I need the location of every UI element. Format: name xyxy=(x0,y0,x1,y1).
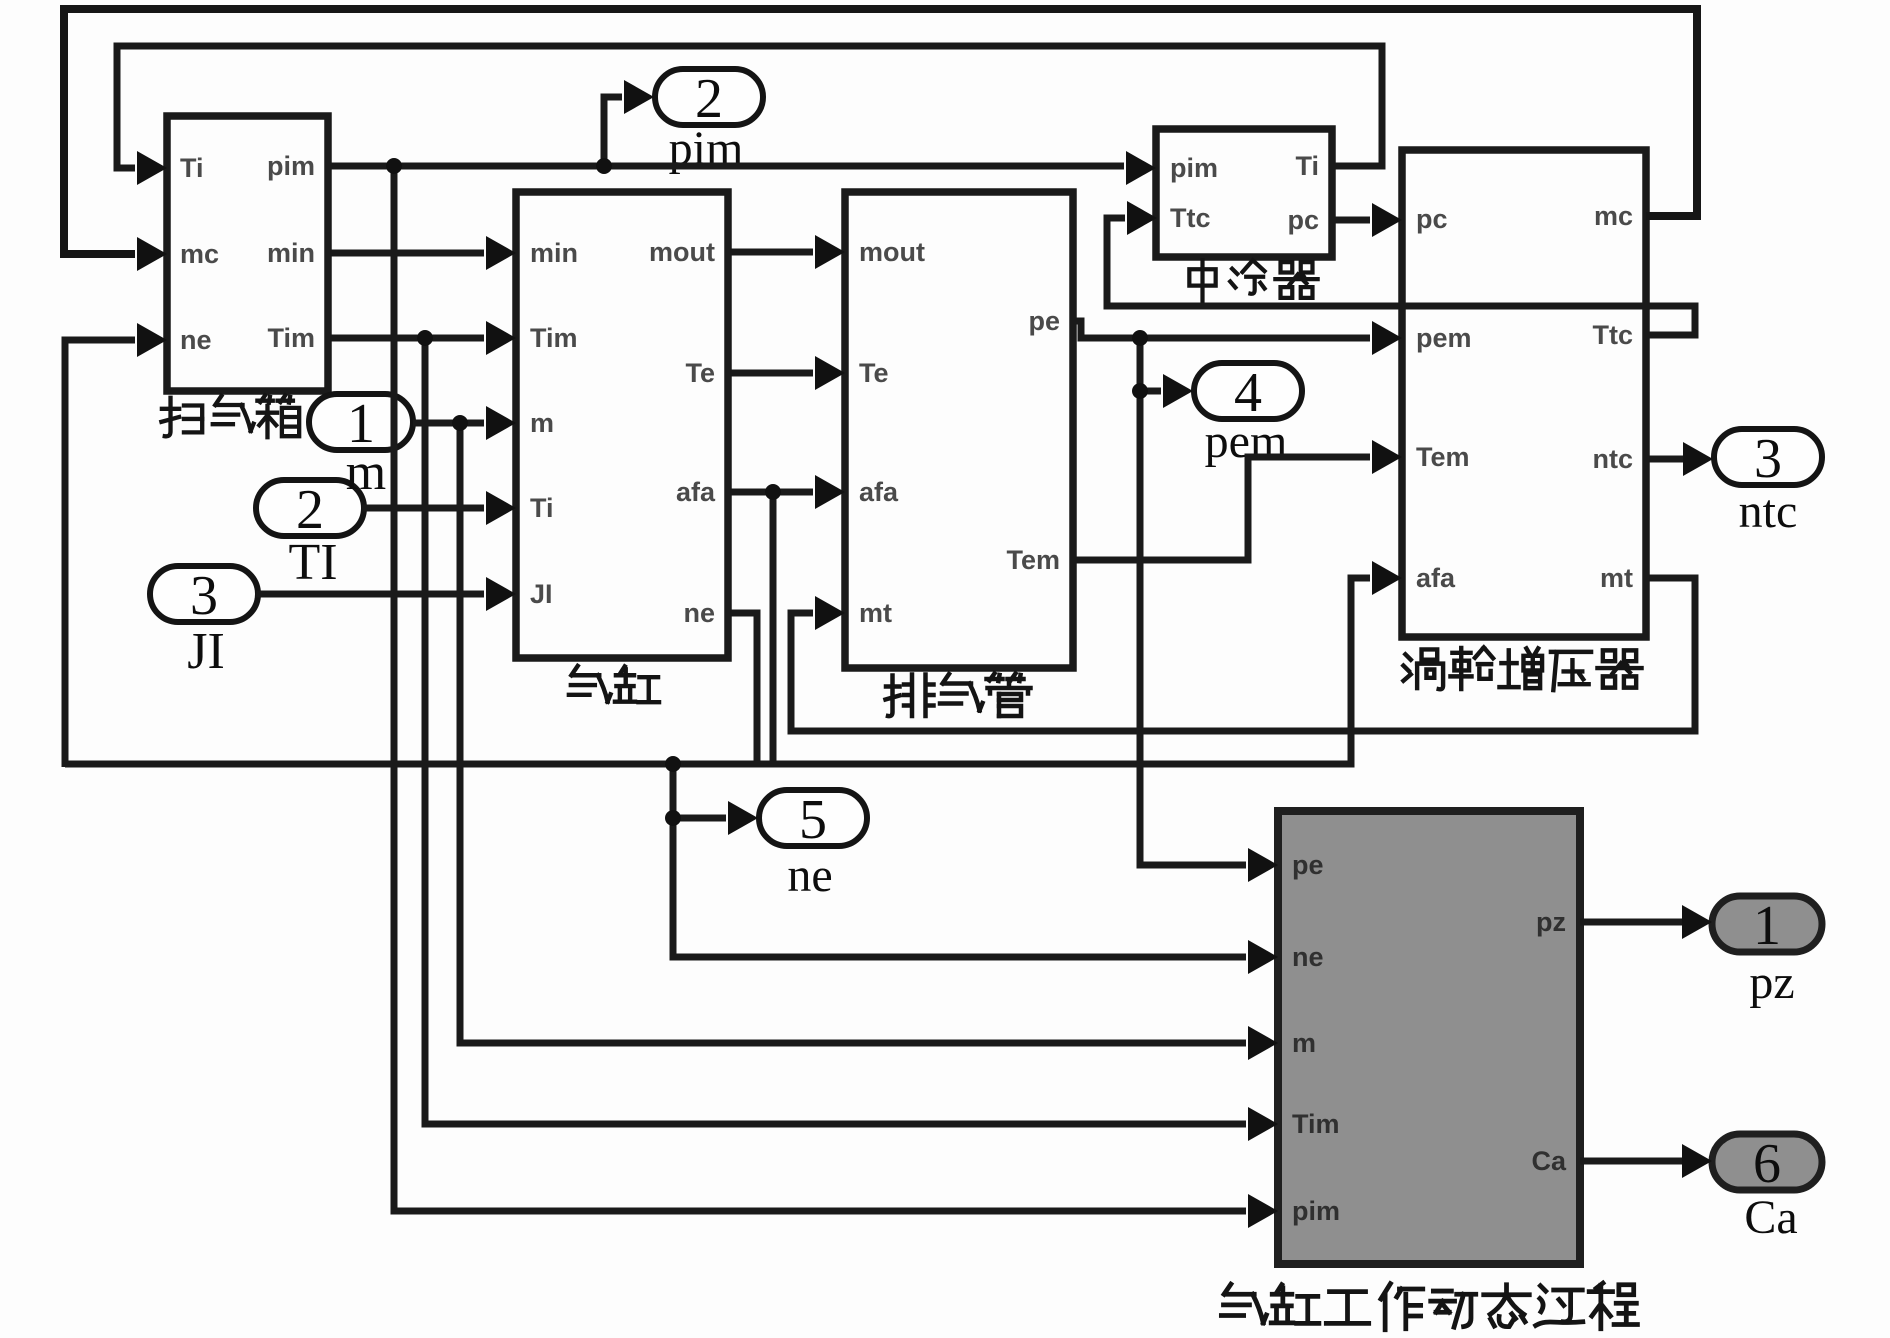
junction pim branch down xyxy=(386,158,402,174)
svg-text:3: 3 xyxy=(190,565,218,627)
svg-text:Ti: Ti xyxy=(1295,151,1319,181)
label 排气管 xyxy=(886,674,1031,717)
arrow into 涡轮增压器 pc xyxy=(1372,203,1402,237)
arrow into 涡轮增压器 afa xyxy=(1372,561,1402,595)
svg-text:pim: pim xyxy=(1170,153,1218,183)
svg-text:ntc: ntc xyxy=(1739,485,1798,538)
svg-text:m: m xyxy=(346,444,386,501)
svg-text:Ca: Ca xyxy=(1531,1146,1566,1176)
label 中冷器 xyxy=(1189,260,1317,301)
svg-text:afa: afa xyxy=(1416,563,1456,593)
output port oval 2 pim xyxy=(655,69,763,125)
port labels 扫气箱 xyxy=(180,151,315,355)
output port oval 5 ne xyxy=(759,790,867,846)
svg-text:min: min xyxy=(530,238,578,268)
arrow into 气缸 m xyxy=(486,406,516,440)
label 扫气箱 xyxy=(161,395,299,437)
svg-text:ntc: ntc xyxy=(1593,444,1634,474)
svg-text:Tim: Tim xyxy=(1292,1109,1340,1139)
svg-text:Tem: Tem xyxy=(1006,545,1060,575)
arrow into 排气管 Te xyxy=(815,356,845,390)
svg-text:pe: pe xyxy=(1292,850,1324,880)
wire Ttc turbo to intercooler xyxy=(1107,218,1695,335)
block 排气管 exhaust pipe xyxy=(845,192,1073,668)
svg-text:Tim: Tim xyxy=(267,323,315,353)
port labels 气缸 xyxy=(530,237,716,628)
arrow into outport 6 Ca xyxy=(1682,1144,1712,1178)
svg-text:Ttc: Ttc xyxy=(1593,320,1634,350)
port labels 涡轮增压器 xyxy=(1416,201,1633,593)
svg-text:pim: pim xyxy=(1292,1196,1340,1226)
svg-text:pe: pe xyxy=(1028,306,1060,336)
svg-text:mt: mt xyxy=(859,598,892,628)
output port oval 3 ntc xyxy=(1714,429,1822,485)
svg-text:Tim: Tim xyxy=(530,323,578,353)
arrow into outport 3 ntc xyxy=(1683,442,1713,476)
arrowheads xyxy=(137,80,1713,1228)
wire Ti loop intercooler Ti to 扫气箱 Ti xyxy=(117,46,1382,168)
svg-text:3: 3 xyxy=(1754,428,1782,490)
junction dots xyxy=(386,158,1148,826)
wire Ca to outport 6 xyxy=(1580,1158,1682,1165)
output port oval 4 pem xyxy=(1194,363,1302,419)
label 涡轮增压器 xyxy=(1403,647,1641,690)
svg-text:min: min xyxy=(267,238,315,268)
svg-text:Ttc: Ttc xyxy=(1170,203,1211,233)
svg-text:TI: TI xyxy=(288,534,337,591)
arrow into outport 4 pem xyxy=(1163,374,1193,408)
label 气缸 xyxy=(569,666,659,702)
arrow into 排气管 afa xyxy=(815,475,845,509)
arrow into 排气管 mout xyxy=(815,235,845,269)
wire branch pim down to gray pim xyxy=(394,166,1246,1211)
wire long return horizontal ne and afa xyxy=(65,578,1370,764)
svg-text:pem: pem xyxy=(1416,323,1472,353)
wire ntc to outport 3 xyxy=(1646,456,1684,463)
arrow into gray ne xyxy=(1248,940,1278,974)
input port oval 1 m xyxy=(309,394,413,450)
junction ne branch xyxy=(665,756,681,772)
svg-text:JI: JI xyxy=(187,623,225,680)
svg-text:2: 2 xyxy=(695,68,723,130)
arrow into 扫气箱 mc xyxy=(137,237,167,271)
svg-text:2: 2 xyxy=(296,479,324,541)
arrow into 气缸 JI xyxy=(486,577,516,611)
block 扫气箱 scavenge box xyxy=(167,116,328,391)
port labels 中冷器 xyxy=(1170,151,1319,235)
arrow into outport 5 ne xyxy=(728,801,758,835)
output port oval 1 pz gray xyxy=(1712,896,1822,952)
junction ne spur to outport 5 xyxy=(665,810,681,826)
wire Tem to turbo Tem xyxy=(1073,457,1370,560)
wire min xyxy=(328,250,484,257)
wire pz to outport 1 xyxy=(1580,919,1682,926)
wire JI from inport 3 xyxy=(256,591,484,598)
arrow into outport 2 pim xyxy=(624,80,654,114)
svg-text:m: m xyxy=(1292,1028,1316,1058)
svg-text:pim: pim xyxy=(267,151,315,181)
junction pe branch xyxy=(1132,330,1148,346)
wire branch pim up to outport 2 xyxy=(604,97,622,166)
junction Tim branch xyxy=(417,330,433,346)
svg-text:pz: pz xyxy=(1749,956,1794,1009)
svg-text:ne: ne xyxy=(1292,942,1324,972)
block 涡轮增压器 turbocharger xyxy=(1402,150,1646,637)
junction pim branch up xyxy=(596,158,612,174)
svg-text:mt: mt xyxy=(1600,563,1633,593)
svg-text:6: 6 xyxy=(1753,1133,1781,1195)
arrow into 气缸 min xyxy=(486,236,516,270)
wire mc feedback loop turbo mc to 扫气箱 mc xyxy=(64,9,1697,254)
wire spur to outport 5 ne xyxy=(673,815,726,822)
svg-text:ne: ne xyxy=(683,598,715,628)
port labels 排气管 xyxy=(859,237,1060,628)
svg-text:5: 5 xyxy=(799,789,827,851)
output port oval 6 Ca gray xyxy=(1712,1134,1822,1190)
svg-text:mout: mout xyxy=(649,237,715,267)
wire Tim xyxy=(328,335,484,342)
block 气缸 cylinder xyxy=(516,192,728,658)
arrow into gray pe xyxy=(1248,848,1278,882)
wire m branch down to gray m xyxy=(460,423,1246,1043)
wire branch Tim down to gray Tim xyxy=(425,338,1246,1124)
svg-text:Ti: Ti xyxy=(530,493,554,523)
input port oval 2 TI xyxy=(256,480,364,536)
wire Te xyxy=(728,370,813,377)
wire ne branch down to outport 5 and gray ne xyxy=(673,764,1246,957)
svg-text:afa: afa xyxy=(676,477,716,507)
wire pim 扫气箱 pim to 中冷器 pim xyxy=(328,163,1124,170)
label 气缸工作动态过程 xyxy=(1221,1283,1637,1330)
svg-text:Ca: Ca xyxy=(1744,1191,1797,1244)
arrow into 气缸 TI xyxy=(486,491,516,525)
svg-text:mout: mout xyxy=(859,237,925,267)
input port oval 3 JI xyxy=(150,566,258,622)
wire pe from 排气管 to turbo pem xyxy=(1073,321,1370,338)
arrow into 排气管 mt xyxy=(815,596,845,630)
port labels gray block xyxy=(1292,850,1567,1226)
junction pem spur xyxy=(1132,383,1148,399)
svg-text:Te: Te xyxy=(685,358,715,388)
svg-text:mc: mc xyxy=(180,239,219,269)
wire m from inport 1 xyxy=(413,420,484,427)
arrow into 中冷器 pim xyxy=(1126,151,1156,185)
wire mt turbo to 排气管 mt xyxy=(791,578,1695,731)
wire TI from inport 2 xyxy=(362,505,484,512)
svg-text:JI: JI xyxy=(530,579,553,609)
arrow into gray m xyxy=(1248,1026,1278,1060)
wire mout xyxy=(728,249,813,256)
wire pc intercooler to turbo xyxy=(1332,217,1370,224)
wire afa branch down and right to turbo afa xyxy=(770,492,777,764)
arrow into 中冷器 Ttc xyxy=(1127,201,1157,235)
wire ne out of cylinder down xyxy=(728,613,757,761)
svg-text:pc: pc xyxy=(1287,205,1319,235)
svg-text:ne: ne xyxy=(180,325,212,355)
svg-text:pc: pc xyxy=(1416,204,1448,234)
junction afa branch xyxy=(765,484,781,500)
svg-text:m: m xyxy=(530,408,554,438)
arrow into 气缸 Tim xyxy=(486,321,516,355)
arrow into 涡轮增压器 Tem xyxy=(1372,440,1402,474)
svg-text:mc: mc xyxy=(1594,201,1633,231)
arrow into 扫气箱 ne xyxy=(137,323,167,357)
wire afa xyxy=(728,489,813,496)
svg-text:afa: afa xyxy=(859,477,899,507)
arrow into 扫气箱 Ti xyxy=(137,151,167,185)
svg-text:pz: pz xyxy=(1536,907,1566,937)
svg-text:Ti: Ti xyxy=(180,153,204,183)
svg-text:Te: Te xyxy=(859,358,889,388)
arrow into gray pim xyxy=(1248,1194,1278,1228)
block 气缸工作动态过程 gray cylinder working dynamic process xyxy=(1278,811,1580,1264)
svg-text:ne: ne xyxy=(787,849,832,902)
svg-text:Tem: Tem xyxy=(1416,442,1470,472)
arrow into gray Tim xyxy=(1248,1107,1278,1141)
wire pe branch to outport 4 pem xyxy=(1140,338,1161,391)
arrow into outport 1 pz xyxy=(1682,905,1712,939)
wire pe branch down to gray pe xyxy=(1140,391,1246,865)
junction m branch xyxy=(452,415,468,431)
svg-text:1: 1 xyxy=(1753,895,1781,957)
block 中冷器 intercooler xyxy=(1156,129,1332,257)
wire ne return left vertical up to 扫气箱 ne xyxy=(65,340,135,767)
arrow into 涡轮增压器 pem xyxy=(1372,321,1402,355)
